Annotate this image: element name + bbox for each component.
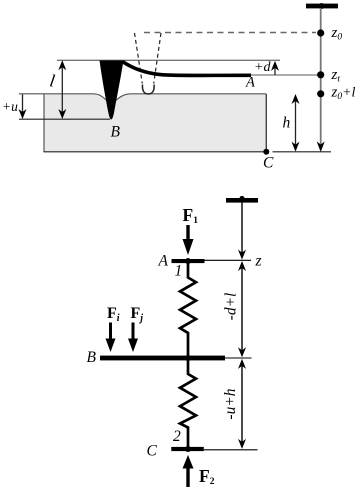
node B bar [100, 356, 225, 361]
node dot C [263, 149, 269, 155]
dimension z (clamp to A level) [241, 203, 243, 258]
dashed undeflected tip outline (left edge) [135, 33, 143, 84]
spring 1 (A to B) [180, 262, 196, 356]
AFM tip (solid black) [100, 60, 124, 119]
z_t reference line [251, 74, 318, 76]
svg-text:h: h [283, 115, 291, 132]
dashed z0 reference line [144, 32, 316, 34]
dimension h (double arrow) [295, 96, 297, 150]
svg-text:A: A [158, 253, 169, 270]
z axis arrowhead [317, 142, 325, 153]
svg-text:z0+l: z0+l [331, 85, 356, 103]
spring 2 (B to C) [180, 360, 196, 447]
svg-text:1: 1 [175, 263, 183, 280]
C level line [204, 449, 258, 451]
block left edge [43, 94, 45, 152]
clamp (fixed support) top right [306, 4, 338, 9]
B level line [19, 118, 110, 120]
svg-text:2: 2 [173, 428, 181, 445]
top-of-tip reference line [57, 59, 280, 61]
svg-text:+u: +u [2, 99, 18, 114]
undeflected tip apex arc [142, 85, 154, 95]
svg-text:C: C [263, 155, 274, 172]
svg-text:+d: +d [254, 60, 271, 75]
svg-text:B: B [87, 349, 97, 366]
force Fi arrow [109, 323, 112, 343]
dimension +d (up arrow) [274, 63, 276, 75]
cantilever (deflected, thick curve) ending at A [123, 62, 252, 76]
dashed undeflected tip outline (right edge) [154, 33, 161, 84]
node dot z0 [317, 29, 324, 36]
svg-text:-d+l: -d+l [223, 293, 240, 321]
svg-text:C: C [147, 443, 158, 460]
node dot z_t [317, 71, 324, 78]
force F2 arrow [186, 466, 189, 487]
svg-text:B: B [111, 124, 121, 141]
clamp (fixed support) [226, 198, 258, 203]
svg-text:A: A [245, 75, 255, 91]
svg-text:-u+h: -u+h [222, 388, 239, 419]
A level tick line [205, 259, 252, 261]
B level tick line [225, 357, 252, 359]
svg-text:z: z [255, 253, 262, 270]
dimension l (double arrow) [61, 62, 63, 117]
dimension -d+l (A to B) [238, 261, 246, 271]
node A bar [172, 259, 205, 263]
force Fj arrow [132, 323, 135, 343]
bottom reference line [44, 151, 268, 153]
z axis line [320, 8, 322, 150]
dimension +u (down arrow) [22, 94, 24, 117]
force F1 arrow [186, 225, 189, 241]
node C bar [171, 447, 204, 451]
sample block (grey) with surface depression [44, 94, 266, 152]
vertical reference line above C [265, 94, 267, 152]
node dot z0+l [317, 90, 324, 97]
surface line (z0+l level) with capillary depression [19, 94, 266, 101]
dimension -u+h (B to C) [238, 359, 246, 369]
